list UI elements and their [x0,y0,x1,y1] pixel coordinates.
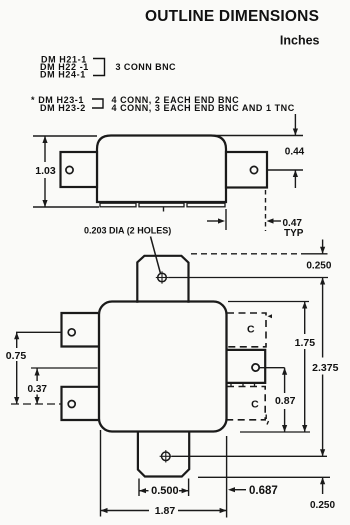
dim 0.87 dimension line [284,368,286,393]
lug A centerline extension [16,331,62,333]
legend group 2 text [112,95,295,113]
legend group 1 labels [40,55,89,80]
foot strip segment 2 [139,203,184,207]
legend group 2 bracket [92,99,103,108]
left connector lug A (top view) [62,313,99,347]
dim 0.47 body-edge extension [225,209,227,230]
svg-text:0.75: 0.75 [6,350,27,362]
center connector feet ticks [230,384,232,387]
dim 0.47 right arrow [267,218,274,223]
foot strip segment 1 [100,203,136,207]
right dashed connector 3 [227,387,265,420]
left connector lug B (top view) [62,387,99,420]
svg-text:0.500: 0.500 [151,485,179,497]
body outline (top view) [99,302,227,432]
svg-text:Inches: Inches [280,34,320,48]
foot strip segment 3 [187,203,225,207]
hole callout leader line [151,237,161,274]
dim 0.250 (top) upper arrow [322,240,324,254]
left lug (side view) [61,152,98,187]
svg-text:2.375: 2.375 [312,362,338,374]
top mounting hole crosshair [158,273,167,282]
right dashed connector 1 [227,313,266,347]
dim 1.75 dimension line [304,302,306,335]
top hole centerline extension [168,277,328,279]
legend group 1 bracket [93,59,105,76]
svg-text:TYP: TYP [284,228,304,239]
dim 0.47 lug-edge dashed extension [265,190,267,231]
svg-text:C: C [247,324,255,336]
svg-text:C: C [251,398,259,410]
dim 0.500 dimension line [139,490,149,492]
svg-text:0.87: 0.87 [275,395,296,407]
center connector hole [252,364,259,371]
center connector hole centerline extension [260,367,285,369]
svg-text:DM H23-2: DM H23-2 [40,103,86,113]
dim 1.03 dimension line [44,136,46,162]
dim 0.44 top extension line [213,135,303,137]
svg-text:0.37: 0.37 [28,384,48,395]
body centerline stub [31,367,98,369]
body outline (side view) [97,136,226,203]
lug B hole [68,401,75,408]
svg-text:4 CONN, 3 EACH END BNC AND 1 T: 4 CONN, 3 EACH END BNC AND 1 TNC [112,103,295,113]
bottom mounting tab [138,431,189,477]
svg-text:1.03: 1.03 [35,165,56,177]
lug A hole [68,329,75,336]
dim 1.03 top extension line [33,135,97,137]
left lug hole [66,166,73,173]
dim 0.250 (bottom) lower arrow [322,477,324,494]
foot tick [163,207,165,212]
bottom hole centerline extension [172,455,327,457]
dim 0.44 upper arrow [294,114,296,136]
svg-text:3 CONN BNC: 3 CONN BNC [116,62,177,72]
svg-text:DM H24-1: DM H24-1 [40,69,86,79]
dim 1.87 extension lines [100,430,102,517]
right lug hole [250,166,257,173]
svg-text:1.75: 1.75 [295,337,316,349]
dim 1.03 bottom extension line [33,206,99,208]
dim 2.375 dimension line (also lower arrow of top 0.250) [322,278,324,358]
dim 0.37 dimension line [36,369,38,382]
dim 0.687 arrow [228,487,235,492]
svg-text:0.250: 0.250 [306,261,331,272]
top mounting tab [137,256,188,303]
body bottom edge extension (right) [240,431,310,433]
lug B centerline extension (dashed) [11,403,62,405]
dim 0.500 extension lines [138,479,140,497]
dim 0.44 lower arrow [294,170,296,188]
legend group 2 labels [31,95,86,113]
svg-text:1.87: 1.87 [155,505,176,517]
body top edge extension (right) [228,301,309,303]
dim 0.44 lower extension line (lug centerline) [267,169,303,171]
right center connector (solid) [227,350,265,383]
right lug (side view) [226,152,267,188]
svg-text:0.44: 0.44 [285,147,305,158]
svg-text:OUTLINE DIMENSIONS: OUTLINE DIMENSIONS [145,8,319,25]
dim 0.47 left arrow [207,220,219,222]
connector 1 tick mark [268,314,273,318]
top tab-edge dashed extension [191,253,302,255]
bottom tab-edge extension [198,476,330,478]
dim 1.87 dimension line [101,510,150,512]
connector 3 tick mark [265,415,267,420]
bottom mounting hole crosshair [162,452,171,461]
svg-text:0.687: 0.687 [249,485,278,497]
dim 0.75 dimension line [16,332,18,348]
svg-text:0.203 DIA (2 HOLES): 0.203 DIA (2 HOLES) [84,225,171,235]
svg-text:0.250: 0.250 [310,500,335,511]
